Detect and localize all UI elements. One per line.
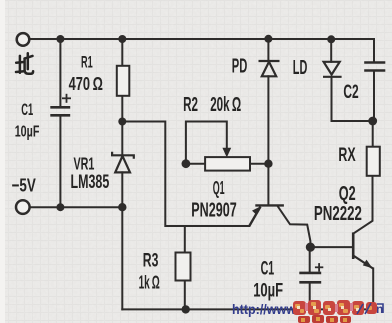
svg-text:R3: R3 — [143, 249, 159, 271]
svg-text:RX: RX — [338, 144, 355, 166]
svg-text:PN2907: PN2907 — [191, 199, 236, 222]
svg-text:470 Ω: 470 Ω — [69, 73, 103, 94]
svg-text:R2: R2 — [183, 94, 198, 116]
svg-text:1k Ω: 1k Ω — [139, 272, 160, 293]
svg-text:10µF: 10µF — [253, 280, 283, 301]
svg-text:10µF: 10µF — [15, 123, 40, 140]
svg-text:R1: R1 — [81, 52, 93, 71]
svg-text:20k Ω: 20k Ω — [210, 94, 241, 116]
svg-text:PD: PD — [232, 55, 248, 77]
svg-text:LD: LD — [293, 57, 308, 79]
svg-text:C1: C1 — [261, 258, 275, 280]
svg-text:Q1: Q1 — [213, 178, 225, 198]
svg-text:http://www: http://www — [232, 302, 296, 317]
svg-text:−5V: −5V — [12, 175, 37, 196]
svg-text:C1: C1 — [21, 101, 33, 119]
svg-text:LM385: LM385 — [71, 171, 110, 193]
svg-text:Q2: Q2 — [339, 183, 356, 205]
svg-text:C2: C2 — [343, 81, 358, 103]
svg-text:PN2222: PN2222 — [314, 203, 362, 225]
